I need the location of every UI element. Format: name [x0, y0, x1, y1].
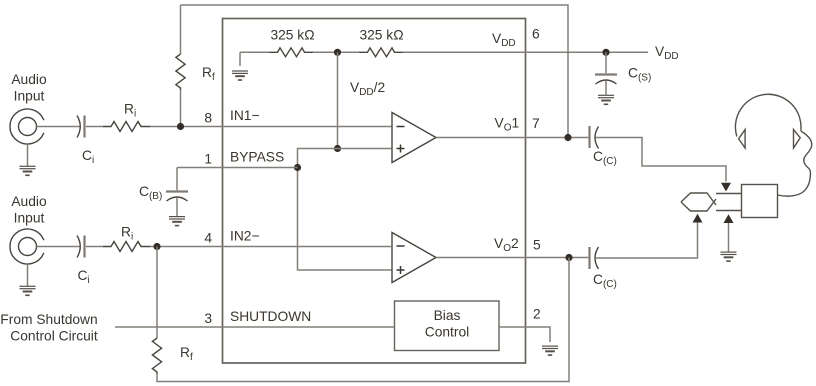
resistor 325k #2 — [359, 48, 403, 57]
capacitor CB curved plate — [167, 197, 188, 201]
svg-text:VO1: VO1 — [495, 116, 520, 134]
wire 325k #2 to pin 6 — [403, 51, 525, 53]
headphones right earpiece — [794, 130, 801, 149]
wire BYPASS — [177, 167, 298, 169]
node BYPASS junction — [294, 164, 301, 171]
svg-text:C(C): C(C) — [593, 149, 617, 167]
svg-text:Ri: Ri — [121, 225, 133, 243]
svg-text:Ri: Ri — [124, 102, 136, 120]
ground pin 2 — [542, 346, 558, 355]
resistor Ri 2 — [103, 242, 150, 252]
svg-text:Audio: Audio — [11, 194, 47, 209]
wire IN2- line — [150, 246, 392, 248]
arrow into plug tip — [693, 214, 703, 223]
svg-text:SHUTDOWN: SHUTDOWN — [230, 309, 311, 324]
resistor Rf (bottom) — [152, 338, 161, 374]
svg-text:Input: Input — [14, 89, 45, 104]
svg-text:VO2: VO2 — [494, 236, 519, 254]
op-amp U1A — [392, 113, 436, 163]
wire internal divider left — [240, 51, 269, 53]
resistor 325k #1 — [269, 48, 313, 57]
node VDD junction — [602, 49, 609, 56]
wire SHUTDOWN — [115, 326, 395, 328]
ground CS — [598, 95, 614, 104]
op-amp U1B minus sign — [397, 245, 405, 247]
capacitor CC2 flat plate — [588, 247, 590, 269]
capacitor CB lower stem — [176, 198, 178, 217]
node VO2 junction — [565, 254, 572, 261]
arrow into plug ring — [721, 183, 731, 192]
wire VDD net — [525, 51, 648, 53]
wire bottom feedback loop — [157, 258, 569, 382]
resistor Rf (top) — [176, 54, 185, 90]
node IN1- junction — [177, 123, 184, 130]
svg-text:IN1−: IN1− — [230, 108, 260, 123]
arrow into plug sleeve — [724, 214, 734, 223]
svg-text:4: 4 — [204, 231, 212, 246]
svg-text:BYPASS: BYPASS — [230, 150, 284, 165]
headphones band — [735, 94, 801, 136]
svg-text:Bias: Bias — [434, 308, 461, 323]
wire J2 to Ci — [37, 246, 80, 248]
svg-text:C(C): C(C) — [593, 272, 617, 290]
capacitor CB stem — [176, 168, 178, 191]
svg-text:VDD: VDD — [492, 31, 516, 49]
capacitor Ci 1 curved plate — [77, 116, 80, 138]
Bias Control box — [395, 301, 500, 351]
op-amp U1A plus sign — [397, 145, 405, 153]
wire VDD/2 vertical — [337, 52, 339, 148]
wire IN1- line — [150, 126, 392, 128]
svg-text:Control Circuit: Control Circuit — [10, 329, 98, 344]
svg-text:5: 5 — [533, 238, 541, 253]
wire sleeve ground stem — [728, 223, 730, 252]
wire Ci to Ri 2 — [86, 246, 103, 248]
svg-text:325 kΩ: 325 kΩ — [270, 28, 314, 43]
connector J1 RCA inner — [19, 118, 37, 136]
wire Rf top stem upper — [180, 5, 182, 54]
capacitor CS lower stem — [605, 81, 607, 95]
wire CC1 to plug ring — [596, 138, 727, 182]
node VDD/2 junction — [334, 49, 341, 56]
connector J2 RCA inner — [19, 238, 37, 256]
svg-text:VDD/2: VDD/2 — [350, 80, 385, 98]
wire Ci to Ri 1 — [86, 126, 103, 128]
svg-text:1: 1 — [204, 152, 212, 167]
op-amp U1B plus sign — [397, 266, 405, 274]
node VO1 junction — [564, 134, 571, 141]
wire IN2 junction to Rf bottom — [156, 247, 158, 339]
wire pin 2 to ground — [499, 327, 550, 342]
wire CC2 to plug tip — [596, 223, 698, 259]
wire top feedback loop — [181, 5, 569, 138]
wire op-amp plus rail — [298, 149, 393, 271]
ground J2 — [27, 264, 29, 286]
svg-text:From Shutdown: From Shutdown — [0, 312, 97, 327]
connector J2 RCA outer — [10, 229, 44, 264]
capacitor Ci 2 curved plate — [77, 236, 80, 258]
headphones cable — [778, 131, 812, 196]
ground plug sleeve — [721, 252, 737, 261]
headphone plug tip — [681, 193, 716, 211]
ground internal divider — [239, 52, 241, 66]
headphones left earpiece — [739, 130, 746, 149]
op-amp U1B — [392, 233, 436, 283]
svg-text:C(S): C(S) — [628, 66, 651, 84]
headphone plug ring — [716, 194, 742, 211]
svg-text:Ci: Ci — [78, 268, 90, 286]
capacitor CC1 curved plate — [595, 127, 599, 149]
wire VO2 output — [436, 257, 588, 259]
capacitor CS stem — [605, 52, 607, 73]
node op-amp1 plus junction — [334, 145, 341, 152]
svg-text:Audio: Audio — [11, 72, 47, 87]
svg-text:Rf: Rf — [202, 65, 215, 83]
svg-text:8: 8 — [204, 111, 212, 126]
capacitor Ci 1 flat plate — [83, 116, 85, 138]
connector J1 RCA outer — [10, 109, 44, 144]
svg-text:C(B): C(B) — [139, 184, 162, 202]
wire between 325k resistors — [313, 51, 359, 53]
ground CB — [169, 217, 185, 226]
resistor Ri 1 — [103, 122, 150, 132]
svg-text:VDD: VDD — [655, 44, 679, 62]
svg-text:IN2−: IN2− — [230, 229, 260, 244]
wire J1 to Ci — [37, 126, 80, 128]
capacitor Ci 2 flat plate — [83, 236, 85, 258]
op-amp U1A minus sign — [397, 126, 405, 128]
capacitor CC2 curved plate — [595, 247, 599, 269]
svg-text:3: 3 — [204, 311, 212, 326]
svg-text:6: 6 — [532, 27, 540, 42]
svg-text:2: 2 — [533, 307, 541, 322]
capacitor CC1 flat plate — [588, 126, 590, 148]
svg-text:Ci: Ci — [82, 148, 94, 166]
IC box U1 — [223, 19, 526, 364]
node IN2- junction — [153, 243, 160, 250]
capacitor CS curved plate — [596, 80, 617, 84]
svg-text:7: 7 — [532, 116, 540, 131]
wire VO1 output — [436, 137, 588, 139]
wire Rf top stem lower — [180, 90, 182, 127]
svg-text:Control: Control — [425, 325, 469, 340]
svg-text:Rf: Rf — [180, 345, 193, 363]
capacitor CS flat plate — [595, 73, 617, 75]
headphone plug body — [742, 185, 778, 218]
ground J1 — [27, 144, 29, 166]
capacitor CB flat plate — [166, 190, 188, 192]
svg-text:Input: Input — [14, 211, 45, 226]
svg-text:325 kΩ: 325 kΩ — [359, 28, 403, 43]
